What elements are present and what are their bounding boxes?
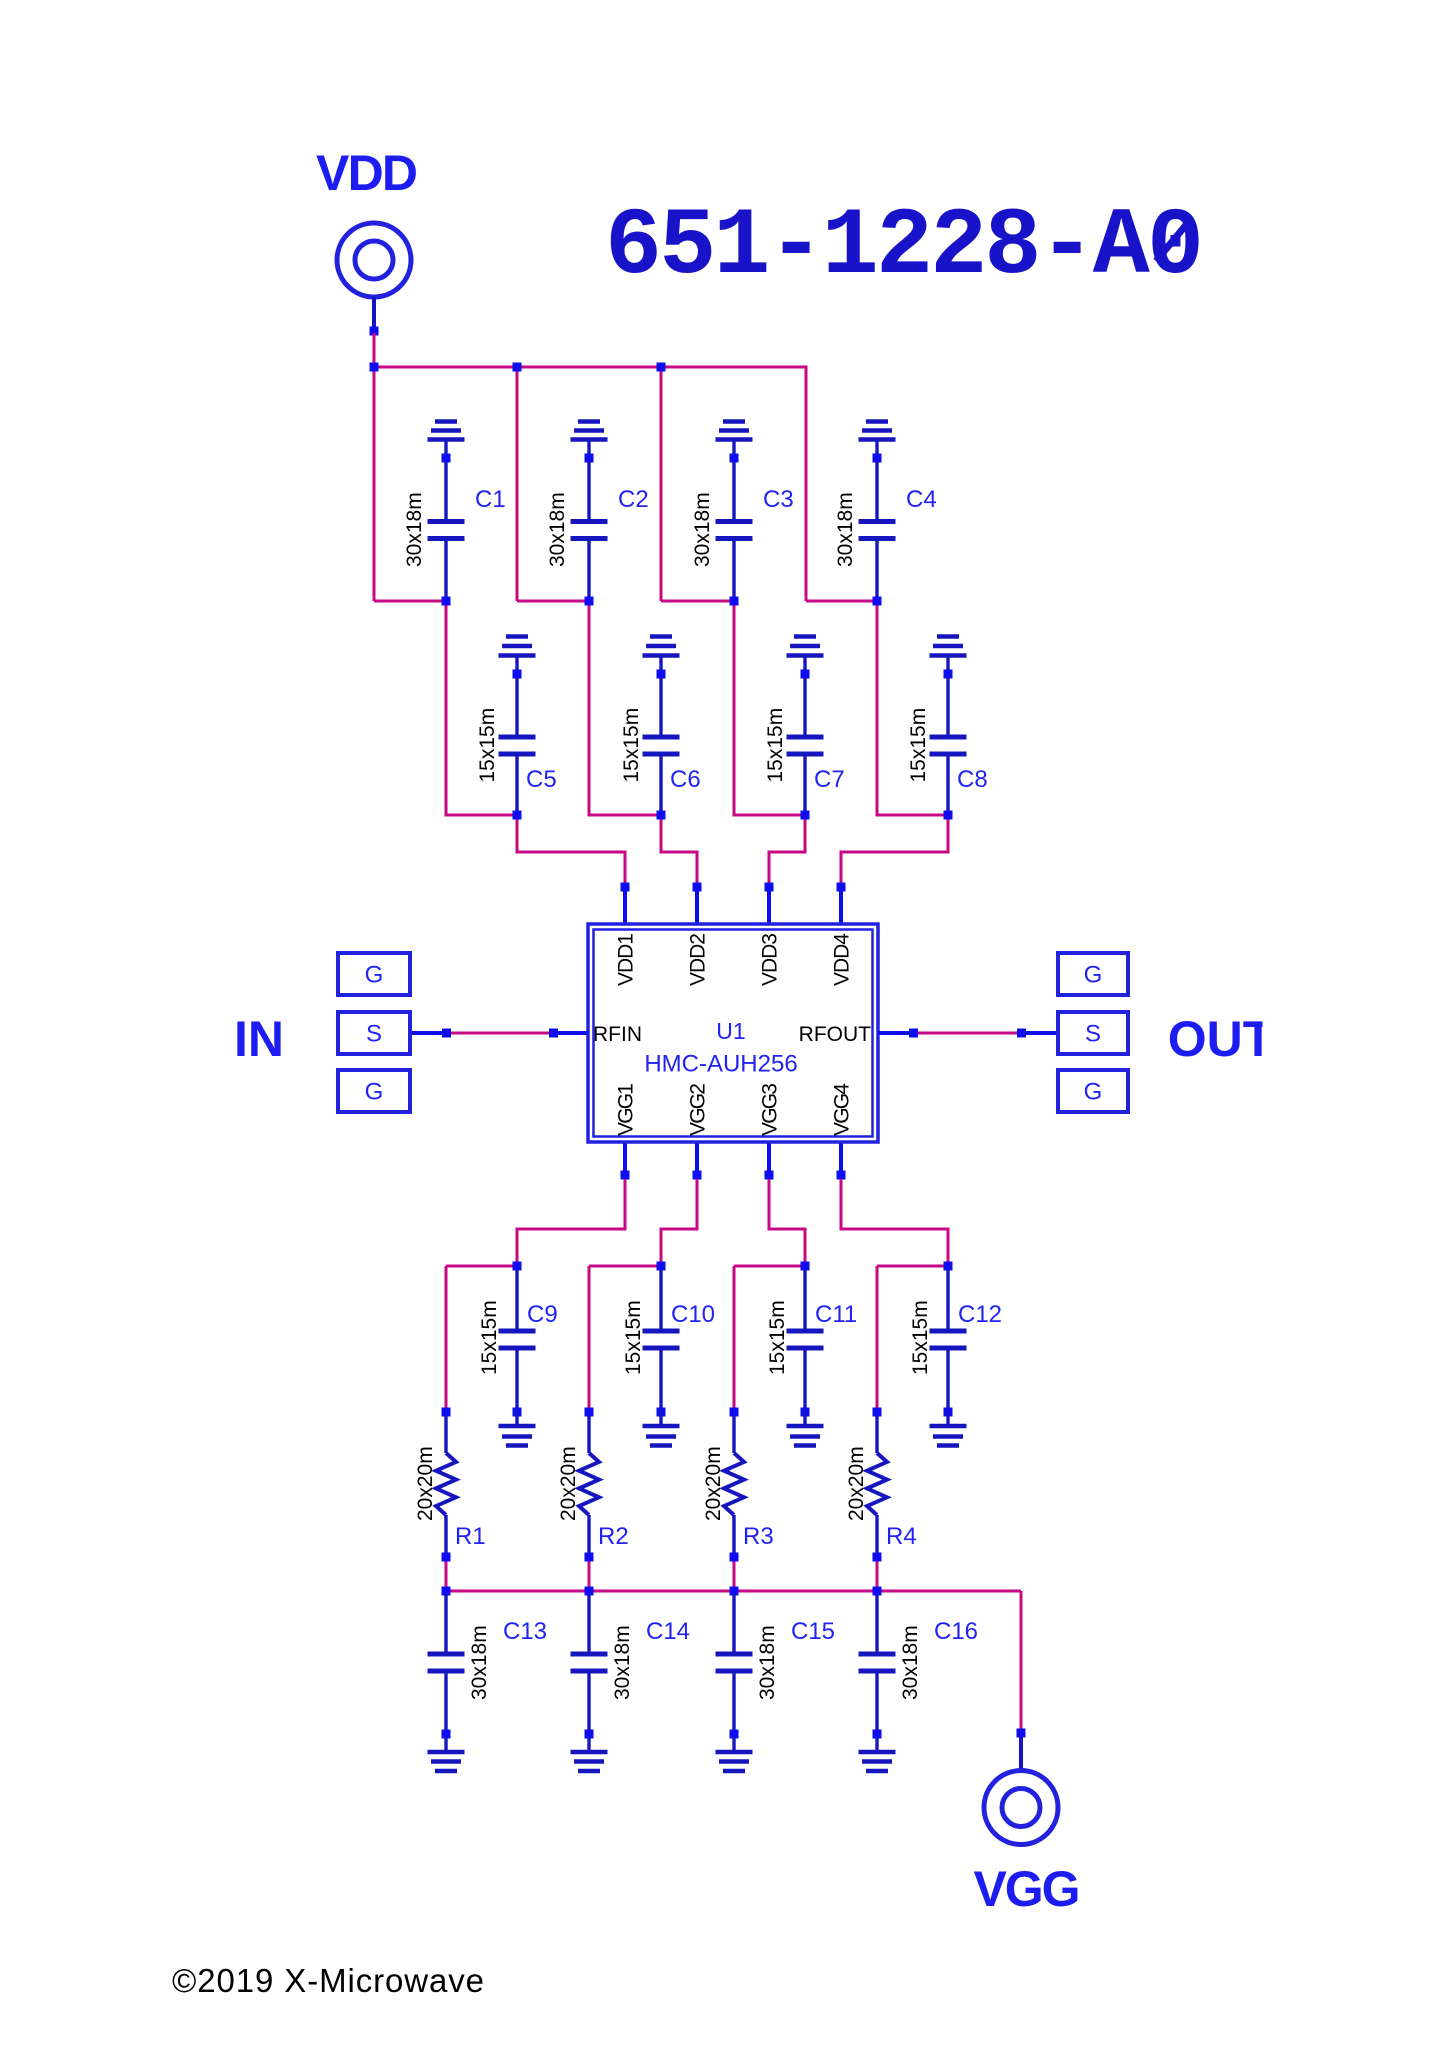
ground C11 <box>787 1412 824 1446</box>
capacitor C16 <box>859 1595 896 1730</box>
junction C9 bottom <box>513 1408 522 1417</box>
ground C4 top <box>859 422 896 454</box>
svg-text:15x15m: 15x15m <box>478 1300 501 1375</box>
junction R2 top <box>585 1408 594 1417</box>
junction C10 bottom <box>657 1408 666 1417</box>
junction C9 top <box>513 1262 522 1271</box>
svg-text:C8: C8 <box>957 766 988 793</box>
junction C10 top <box>657 1262 666 1271</box>
wire to C4 bottom <box>806 600 877 603</box>
svg-text:15x15m: 15x15m <box>764 708 787 783</box>
resistor R3 <box>724 1416 744 1553</box>
svg-text:651-1228-A0: 651-1228-A0 <box>605 193 1204 301</box>
junction C12 bottom <box>944 1408 953 1417</box>
pin label VDD1 <box>615 933 638 986</box>
value 15x15m (C12) <box>909 1300 932 1375</box>
capacitor C15 <box>716 1595 753 1730</box>
ground C7 top <box>787 637 824 670</box>
svg-text:C1: C1 <box>475 486 506 513</box>
svg-text:30x18m: 30x18m <box>834 492 857 567</box>
capacitor C13 <box>428 1595 465 1730</box>
svg-text:C15: C15 <box>791 1618 835 1645</box>
label R3 <box>743 1523 774 1550</box>
junction rail C13 <box>442 1587 451 1596</box>
junction R4 bottom <box>873 1553 882 1562</box>
ground C9 <box>499 1412 536 1446</box>
value 30x18m (C1) <box>403 492 426 567</box>
capacitor C10 <box>643 1270 680 1408</box>
label VDD <box>316 145 418 201</box>
wire RFOUT link <box>918 1032 1017 1035</box>
svg-text:VGG3: VGG3 <box>759 1083 782 1136</box>
pin label VGG2 <box>687 1083 710 1136</box>
junction C14 bottom <box>585 1730 594 1739</box>
junction C1 bottom <box>442 597 451 606</box>
capacitor C9 <box>499 1270 536 1408</box>
capacitor C6 <box>643 678 680 811</box>
junction RFIN b <box>549 1029 558 1038</box>
wire VGG3 pin to C11 <box>769 1179 805 1266</box>
svg-text:C11: C11 <box>815 1301 857 1328</box>
ground C3 top <box>716 422 753 454</box>
svg-text:OUT: OUT <box>1168 1011 1274 1067</box>
pad S (out) <box>1058 1012 1128 1054</box>
wire VDD rail <box>374 366 806 369</box>
junction R3 bottom <box>730 1553 739 1562</box>
wire rail drop to C4 <box>805 367 807 601</box>
wire C12 to R4 branch <box>877 1265 948 1268</box>
value 15x15m (C6) <box>620 708 643 783</box>
copyright <box>172 1962 484 1999</box>
value 15x15m (C10) <box>622 1300 645 1375</box>
junction C1 top <box>442 454 451 463</box>
junction C11 bottom <box>801 1408 810 1417</box>
svg-text:HMC-AUH256: HMC-AUH256 <box>644 1051 797 1078</box>
wire R2 to VGG rail <box>588 1557 591 1591</box>
svg-text:VGG1: VGG1 <box>615 1083 638 1136</box>
svg-text:S: S <box>1085 1021 1101 1048</box>
label IN <box>234 1011 284 1067</box>
IC U1 HMC-AUH256 <box>588 924 878 1142</box>
junction pin VDD1 <box>621 883 630 892</box>
label C10 <box>671 1301 715 1328</box>
capacitor C3 <box>716 462 753 597</box>
svg-text:C9: C9 <box>527 1301 558 1328</box>
junction C3 top <box>730 454 739 463</box>
svg-text:VDD3: VDD3 <box>759 933 782 986</box>
port VGG <box>984 1771 1058 1845</box>
svg-text:VDD: VDD <box>316 145 418 201</box>
ground C16 <box>859 1738 896 1771</box>
ground C14 <box>571 1738 608 1771</box>
wire VGG2 pin to C10 <box>661 1179 697 1266</box>
pin label VGG1 <box>615 1083 638 1136</box>
junction rail C15 <box>730 1587 739 1596</box>
ground C1 top <box>428 422 465 454</box>
junction C4 bottom <box>873 597 882 606</box>
svg-text:15x15m: 15x15m <box>620 708 643 783</box>
wire R1 to VGG rail <box>445 1557 448 1591</box>
pin label RFIN <box>593 1023 642 1046</box>
junction pin VGG1 <box>621 1171 630 1180</box>
wire pin VGG4 stub <box>839 1142 843 1175</box>
junction pin VGG3 <box>765 1171 774 1180</box>
wire S to RFIN junction <box>412 1031 442 1035</box>
svg-text:C4: C4 <box>906 486 937 513</box>
pad S (in) <box>338 1012 410 1054</box>
wire to C1 bottom <box>374 600 446 603</box>
value 20x20m (R3) <box>702 1446 725 1521</box>
svg-text:15x15m: 15x15m <box>622 1300 645 1375</box>
wire C10 to R2 branch <box>589 1265 661 1268</box>
junction C2 top <box>585 454 594 463</box>
wire C9 to R1 branch <box>446 1265 517 1268</box>
junction C5 bottom <box>513 811 522 820</box>
junction C2 bottom <box>585 597 594 606</box>
junction pin VGG4 <box>837 1171 846 1180</box>
svg-text:R3: R3 <box>743 1523 774 1550</box>
wire drop to R1 <box>445 1266 448 1412</box>
wire to C3 bottom <box>661 600 734 603</box>
junction C8 bottom <box>944 811 953 820</box>
wire C3 to C7 <box>734 601 805 815</box>
value 20x20m (R2) <box>557 1446 580 1521</box>
wire R3 to VGG rail <box>733 1557 736 1591</box>
junction pin VGG2 <box>693 1171 702 1180</box>
junction R2 bottom <box>585 1553 594 1562</box>
svg-text:VDD4: VDD4 <box>831 933 854 986</box>
svg-text:15x15m: 15x15m <box>766 1300 789 1375</box>
svg-text:VGG2: VGG2 <box>687 1083 710 1136</box>
junction rail C16 <box>873 1587 882 1596</box>
junction VDD rail T <box>370 363 379 372</box>
wire pin VDD2 stub <box>695 887 699 924</box>
label C1 <box>475 486 506 513</box>
pad G (out bottom) <box>1058 1070 1128 1112</box>
label R4 <box>886 1523 917 1550</box>
junction C6 bottom <box>657 811 666 820</box>
value 15x15m (C8) <box>907 708 930 783</box>
svg-text:RFIN: RFIN <box>593 1023 642 1046</box>
wire C4 to C8 <box>877 601 948 815</box>
junction RFOUT b <box>1017 1029 1026 1038</box>
label C5 <box>526 766 557 793</box>
resistor R1 <box>436 1416 456 1553</box>
wire pin VDD4 stub <box>839 887 843 924</box>
junction pin VDD3 <box>765 883 774 892</box>
junction C11 top <box>801 1262 810 1271</box>
value 15x15m (C11) <box>766 1300 789 1375</box>
wire VDD port lead <box>372 297 376 331</box>
wire VGG1 pin to C9 <box>517 1179 625 1266</box>
wire to S (out) <box>1026 1031 1056 1035</box>
value 20x20m (R4) <box>845 1446 868 1521</box>
port VDD <box>337 223 411 297</box>
wire drop to R3 <box>733 1266 736 1412</box>
svg-text:20x20m: 20x20m <box>557 1446 580 1521</box>
ground C12 <box>930 1412 967 1446</box>
pad G (out top) <box>1058 953 1128 995</box>
capacitor C5 <box>499 678 536 811</box>
wire C1 to C5 <box>446 601 517 815</box>
ground C13 <box>428 1738 465 1771</box>
junction R3 top <box>730 1408 739 1417</box>
ground C6 top <box>643 637 680 670</box>
wire VGG rail to port <box>1020 1591 1023 1733</box>
wire RFOUT pin to junction <box>878 1031 909 1035</box>
junction RFOUT a <box>909 1029 918 1038</box>
svg-text:VDD1: VDD1 <box>615 933 638 986</box>
svg-text:S: S <box>366 1021 382 1048</box>
ground C2 top <box>571 422 608 454</box>
wire C6 to VDD2 pin <box>661 815 697 887</box>
junction C12 top <box>944 1262 953 1271</box>
capacitor C2 <box>571 462 608 597</box>
junction C4 top <box>873 454 882 463</box>
svg-text:C10: C10 <box>671 1301 715 1328</box>
svg-text:G: G <box>365 1079 384 1106</box>
label C3 <box>763 486 794 513</box>
label C13 <box>503 1618 547 1645</box>
label C15 <box>791 1618 835 1645</box>
svg-text:C2: C2 <box>618 486 649 513</box>
title 651-1228-A0 <box>605 193 1204 301</box>
svg-text:15x15m: 15x15m <box>907 708 930 783</box>
svg-text:R2: R2 <box>598 1523 629 1550</box>
svg-text:C3: C3 <box>763 486 794 513</box>
pin label VDD3 <box>759 933 782 986</box>
wire VGG port lead <box>1019 1737 1023 1771</box>
wire C7 to VDD3 pin <box>769 815 805 887</box>
label C9 <box>527 1301 558 1328</box>
wire C8 to VDD4 pin <box>841 815 948 887</box>
label VGG <box>974 1861 1081 1917</box>
svg-text:30x18m: 30x18m <box>611 1625 634 1700</box>
junction C13 bottom <box>442 1730 451 1739</box>
capacitor C4 <box>859 462 896 597</box>
label C11 <box>815 1301 857 1328</box>
pad G (in bottom) <box>338 1070 410 1112</box>
svg-text:R4: R4 <box>886 1523 917 1550</box>
svg-text:C14: C14 <box>646 1618 690 1645</box>
svg-text:C6: C6 <box>670 766 701 793</box>
svg-text:C16: C16 <box>934 1618 978 1645</box>
svg-text:G: G <box>1084 962 1103 989</box>
svg-text:G: G <box>365 962 384 989</box>
wire VGG4 pin to C12 <box>841 1179 948 1266</box>
value 20x20m (R1) <box>414 1446 437 1521</box>
pin label VGG4 <box>831 1083 854 1136</box>
wire pin VGG3 stub <box>767 1142 771 1175</box>
resistor R2 <box>579 1416 599 1553</box>
value 30x18m (C4) <box>834 492 857 567</box>
wire to C2 bottom <box>517 600 589 603</box>
svg-text:C13: C13 <box>503 1618 547 1645</box>
ground C5 top <box>499 637 536 670</box>
svg-text:C7: C7 <box>814 766 845 793</box>
wire drop to R2 <box>588 1266 591 1412</box>
wire C5 to VDD1 pin <box>517 815 625 887</box>
wire rail drop to C2 <box>516 367 519 601</box>
capacitor C7 <box>787 678 824 811</box>
junction R1 bottom <box>442 1553 451 1562</box>
svg-text:20x20m: 20x20m <box>845 1446 868 1521</box>
ground C8 top <box>930 637 967 670</box>
value 30x18m (C15) <box>756 1625 779 1700</box>
value 30x18m (C14) <box>611 1625 634 1700</box>
resistor R4 <box>867 1416 887 1553</box>
junction C16 bottom <box>873 1730 882 1739</box>
junction R1 top <box>442 1408 451 1417</box>
junction C5 top <box>513 670 522 679</box>
svg-text:30x18m: 30x18m <box>546 492 569 567</box>
ground C10 <box>643 1412 680 1446</box>
capacitor C14 <box>571 1595 608 1730</box>
wire pin VDD1 stub <box>623 887 627 924</box>
label C6 <box>670 766 701 793</box>
value 30x18m (C13) <box>468 1625 491 1700</box>
value 30x18m (C2) <box>546 492 569 567</box>
junction C7 top <box>801 670 810 679</box>
pin label VDD4 <box>831 933 854 986</box>
pin label VGG3 <box>759 1083 782 1136</box>
svg-text:15x15m: 15x15m <box>476 708 499 783</box>
value 30x18m (C3) <box>691 492 714 567</box>
capacitor C11 <box>787 1270 824 1408</box>
wire drop to R4 <box>876 1266 879 1412</box>
capacitor C8 <box>930 678 967 811</box>
pin label RFOUT <box>799 1023 871 1046</box>
junction C15 bottom <box>730 1730 739 1739</box>
junction RFIN a <box>442 1029 451 1038</box>
svg-text:30x18m: 30x18m <box>756 1625 779 1700</box>
junction rail C2 branch <box>513 363 522 372</box>
svg-text:30x18m: 30x18m <box>899 1625 922 1700</box>
junction C3 bottom <box>730 597 739 606</box>
svg-text:©2019 X-Microwave: ©2019 X-Microwave <box>172 1962 484 1999</box>
wire pin VGG1 stub <box>623 1142 627 1175</box>
capacitor C1 <box>428 462 465 597</box>
wire pin VDD3 stub <box>767 887 771 924</box>
svg-text:RFOUT: RFOUT <box>799 1023 871 1046</box>
svg-text:30x18m: 30x18m <box>403 492 426 567</box>
wire to RFIN pin <box>558 1031 588 1035</box>
svg-text:20x20m: 20x20m <box>702 1446 725 1521</box>
value 30x18m (C16) <box>899 1625 922 1700</box>
svg-text:G: G <box>1084 1079 1103 1106</box>
svg-text:R1: R1 <box>455 1523 486 1550</box>
svg-text:30x18m: 30x18m <box>468 1625 491 1700</box>
label C7 <box>814 766 845 793</box>
pin label VDD2 <box>687 933 710 986</box>
capacitor C12 <box>930 1270 967 1408</box>
wire C11 to R3 branch <box>734 1265 805 1268</box>
label C16 <box>934 1618 978 1645</box>
label C4 <box>906 486 937 513</box>
svg-text:15x15m: 15x15m <box>909 1300 932 1375</box>
junction rail C3 branch <box>657 363 666 372</box>
label R1 <box>455 1523 486 1550</box>
svg-text:20x20m: 20x20m <box>414 1446 437 1521</box>
label R2 <box>598 1523 629 1550</box>
wire pin VGG2 stub <box>695 1142 699 1175</box>
svg-text:30x18m: 30x18m <box>691 492 714 567</box>
ground C15 <box>716 1738 753 1771</box>
svg-text:C12: C12 <box>958 1301 1002 1328</box>
wire R4 to VGG rail <box>876 1557 879 1591</box>
wire RFIN link <box>451 1032 549 1035</box>
junction VDD port <box>370 327 379 336</box>
svg-text:U1: U1 <box>716 1018 745 1044</box>
svg-text:VDD2: VDD2 <box>687 933 710 986</box>
wire VGG rail <box>446 1590 1021 1593</box>
junction VGG port <box>1017 1729 1026 1738</box>
value 15x15m (C9) <box>478 1300 501 1375</box>
pad G (in top) <box>338 953 410 995</box>
junction C7 bottom <box>801 811 810 820</box>
label C14 <box>646 1618 690 1645</box>
label C8 <box>957 766 988 793</box>
junction pin VDD4 <box>837 883 846 892</box>
svg-text:VGG: VGG <box>974 1861 1081 1917</box>
svg-text:C5: C5 <box>526 766 557 793</box>
value 15x15m (C5) <box>476 708 499 783</box>
label C12 <box>958 1301 1002 1328</box>
junction rail C14 <box>585 1587 594 1596</box>
junction C6 top <box>657 670 666 679</box>
svg-text:VGG4: VGG4 <box>831 1083 854 1136</box>
wire C2 to C6 <box>589 601 661 815</box>
junction pin VDD2 <box>693 883 702 892</box>
wire VDD vertical to C1 branch <box>373 333 376 601</box>
value 15x15m (C7) <box>764 708 787 783</box>
svg-text:IN: IN <box>234 1011 284 1067</box>
wire rail drop to C3 <box>660 367 663 601</box>
label C2 <box>618 486 649 513</box>
junction C8 top <box>944 670 953 679</box>
junction R4 top <box>873 1408 882 1417</box>
